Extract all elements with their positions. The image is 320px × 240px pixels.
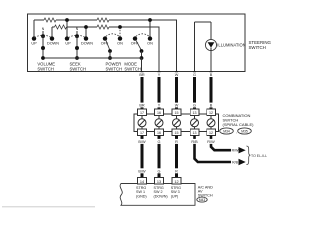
svg-text:M43: M43 [199, 198, 205, 202]
svg-text:DOWN: DOWN [81, 42, 93, 46]
svg-text:STEERING: STEERING [249, 40, 272, 45]
svg-text:(SPIRAL CABLE): (SPIRAL CABLE) [223, 122, 255, 127]
svg-text:M35: M35 [241, 129, 248, 133]
svg-text:UP: UP [31, 42, 37, 46]
svg-text:SWITCH: SWITCH [249, 45, 266, 50]
svg-text:(DOWN): (DOWN) [154, 194, 168, 198]
svg-text:15: 15 [175, 111, 179, 115]
svg-text:G: G [193, 104, 196, 108]
svg-text:R/W: R/W [232, 149, 240, 153]
svg-text:Y: Y [158, 73, 161, 77]
svg-text:UP: UP [65, 42, 71, 46]
svg-text:B/W: B/W [138, 140, 146, 144]
svg-text:16: 16 [157, 131, 161, 135]
svg-text:B: B [210, 104, 213, 108]
svg-text:DOWN: DOWN [47, 42, 59, 46]
svg-text:15: 15 [175, 131, 179, 135]
svg-text:M34: M34 [223, 129, 230, 133]
svg-text:R/W: R/W [207, 140, 215, 144]
svg-text:13: 13 [193, 131, 197, 135]
svg-text:ON: ON [147, 42, 153, 46]
svg-text:(UP): (UP) [171, 194, 179, 198]
svg-text:14: 14 [140, 180, 144, 184]
svg-text:OFF: OFF [131, 42, 139, 46]
svg-text:SWITCH: SWITCH [124, 66, 141, 71]
svg-text:W: W [175, 104, 179, 108]
svg-text:BR: BR [139, 104, 145, 108]
svg-text:SWITCH: SWITCH [37, 66, 54, 71]
svg-text:Y: Y [158, 104, 161, 108]
svg-text:B/W: B/W [138, 169, 146, 173]
svg-text:17: 17 [140, 111, 144, 115]
svg-text:13: 13 [193, 111, 197, 115]
svg-text:17: 17 [140, 131, 144, 135]
svg-text:12: 12 [174, 180, 178, 184]
svg-text:G: G [158, 169, 161, 173]
svg-text:,: , [236, 129, 237, 134]
svg-text:R: R [175, 169, 178, 173]
svg-text:B: B [210, 73, 213, 77]
svg-text:SWITCH: SWITCH [106, 66, 123, 71]
svg-text:R: R [175, 140, 178, 144]
svg-text:R/B: R/B [191, 140, 198, 144]
svg-text:ILLUMINATION: ILLUMINATION [217, 42, 245, 47]
svg-text:OFF: OFF [101, 42, 109, 46]
svg-text:R/B: R/B [232, 161, 239, 165]
svg-text:ON: ON [117, 42, 123, 46]
svg-text:13: 13 [157, 180, 161, 184]
svg-text:G: G [158, 140, 161, 144]
svg-text:(GND): (GND) [136, 194, 147, 198]
svg-text:BR: BR [139, 73, 145, 77]
svg-text:16: 16 [157, 111, 161, 115]
svg-text:12: 12 [209, 111, 213, 115]
svg-text:G: G [193, 73, 196, 77]
svg-text:TO EL-ILL: TO EL-ILL [251, 154, 267, 158]
svg-text:12: 12 [209, 131, 213, 135]
svg-text:W: W [175, 73, 179, 77]
svg-text:SWITCH: SWITCH [70, 66, 87, 71]
